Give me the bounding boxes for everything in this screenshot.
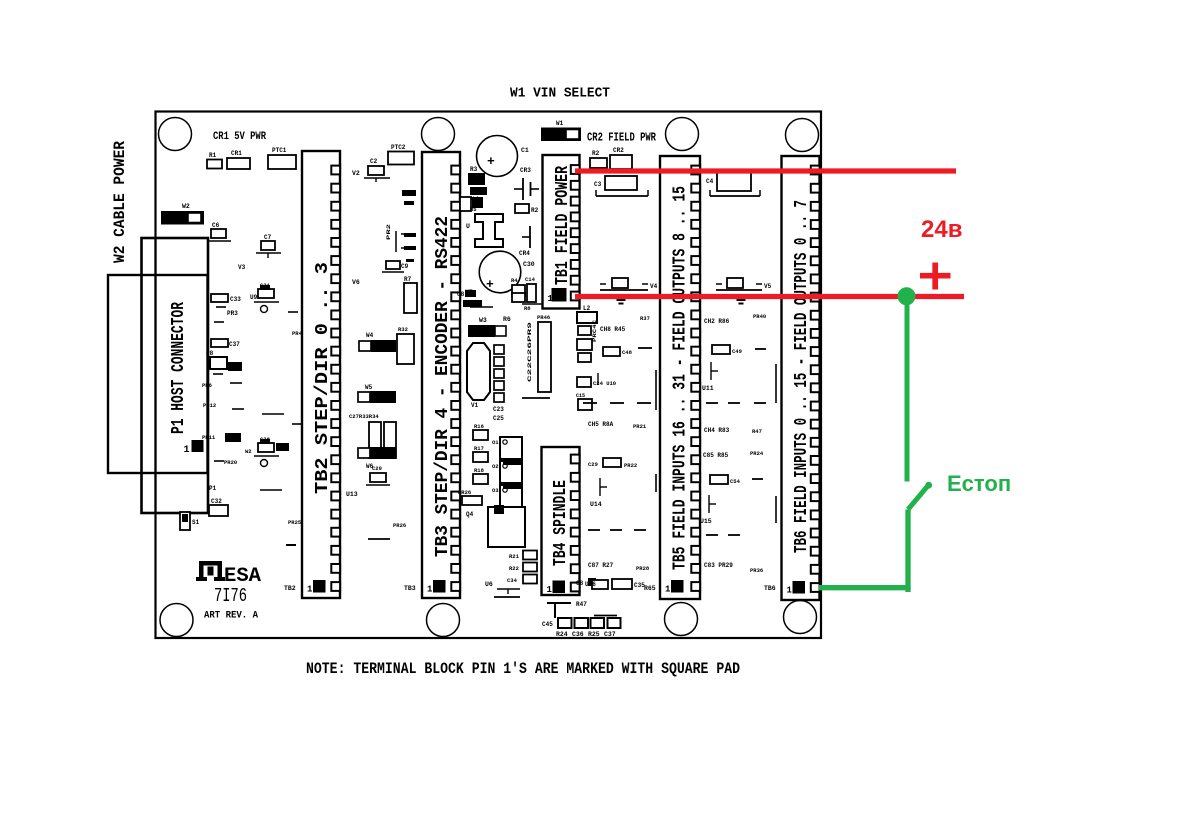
svg-text:R7: R7 bbox=[404, 276, 412, 283]
svg-text:CR2: CR2 bbox=[613, 147, 624, 154]
svg-text:C35: C35 bbox=[634, 582, 645, 589]
svg-text:O1: O1 bbox=[492, 439, 499, 446]
capacitor C4 bbox=[717, 172, 751, 191]
svg-text:CH2 R86: CH2 R86 bbox=[704, 318, 730, 325]
node junction dot bbox=[898, 288, 915, 305]
line above R25 bbox=[594, 615, 617, 617]
svg-text:PTC1: PTC1 bbox=[272, 147, 287, 154]
svg-text:U6: U6 bbox=[485, 581, 493, 588]
capacitor C33 bbox=[211, 294, 228, 302]
dash mark a bbox=[402, 190, 416, 196]
svg-text:R1: R1 bbox=[209, 152, 217, 159]
jumper W4 bbox=[371, 340, 396, 352]
dash below W6 bbox=[368, 538, 390, 540]
capacitor C2 lead bbox=[364, 177, 390, 179]
mounting hole bottom-right bbox=[784, 601, 817, 634]
resistor R24 bbox=[575, 618, 589, 628]
svg-text:C15: C15 bbox=[576, 393, 585, 399]
IC U14 lead bbox=[599, 478, 601, 496]
diode CR3 symbol bbox=[522, 178, 524, 200]
diode CR2 bbox=[610, 155, 632, 169]
PCB board outline bbox=[156, 112, 822, 639]
capacitor C34 bbox=[523, 575, 537, 584]
jumper W4 open position bbox=[359, 341, 371, 351]
svg-text:C30: C30 bbox=[523, 261, 535, 268]
trace below TB4 bbox=[547, 602, 571, 604]
svg-text:V3: V3 bbox=[238, 264, 246, 271]
transistor Q3 bbox=[500, 485, 522, 507]
svg-text:U: U bbox=[466, 223, 470, 230]
wire 24V positive bottom bbox=[575, 294, 964, 299]
transistor V5 bbox=[716, 289, 762, 291]
svg-text:U7: U7 bbox=[465, 289, 473, 296]
capacitor C4 bracket bbox=[710, 195, 760, 197]
TB1 pin 1 marker bbox=[552, 288, 567, 302]
svg-text:U11: U11 bbox=[702, 385, 714, 392]
svg-text:R47: R47 bbox=[752, 428, 762, 435]
svg-text:C37: C37 bbox=[604, 631, 616, 638]
svg-text:1: 1 bbox=[307, 585, 313, 595]
switch Estop blade bbox=[908, 485, 929, 510]
vertical trace left of TB6 a bbox=[775, 364, 777, 403]
resistor R22 bbox=[523, 563, 537, 572]
svg-text:C34: C34 bbox=[507, 577, 518, 584]
wire estop lower bbox=[905, 510, 910, 593]
svg-text:PR22: PR22 bbox=[624, 462, 637, 469]
svg-text:U15: U15 bbox=[700, 518, 712, 525]
IC U6 lead bbox=[497, 588, 520, 590]
svg-text:C29: C29 bbox=[588, 461, 598, 468]
svg-text:O3: O3 bbox=[492, 487, 499, 494]
dash right TB2 e bbox=[406, 259, 414, 262]
vertical trace left of TB5 b bbox=[655, 474, 657, 492]
svg-text:P8: P8 bbox=[206, 350, 214, 357]
svg-text:PR24: PR24 bbox=[750, 450, 764, 457]
svg-text:W1 VIN SELECT: W1 VIN SELECT bbox=[510, 86, 610, 102]
svg-text:R4: R4 bbox=[511, 277, 518, 284]
diode CR4 symbol bbox=[529, 226, 531, 248]
capacitor C49 bbox=[712, 345, 730, 354]
dash p6 bbox=[214, 460, 224, 462]
capacitor C14 bbox=[527, 284, 536, 302]
board edge through connector bbox=[154, 238, 156, 513]
svg-text:R16: R16 bbox=[474, 423, 484, 430]
resistor R25 bbox=[608, 618, 621, 628]
svg-text:1: 1 bbox=[427, 585, 433, 595]
resistor R21 bbox=[523, 551, 537, 560]
svg-text:CR2 FIELD PWR: CR2 FIELD PWR bbox=[587, 131, 657, 145]
svg-text:Q4: Q4 bbox=[466, 511, 474, 518]
capacitor C46 bbox=[578, 353, 591, 362]
resistor R1 bbox=[207, 160, 222, 169]
jumper W1 bbox=[541, 128, 581, 142]
resistor R4 bbox=[512, 285, 525, 296]
capacitor C30 bbox=[479, 251, 521, 293]
resistor R45 bbox=[577, 339, 592, 350]
svg-text:C7: C7 bbox=[264, 234, 272, 241]
capacitor C36b bbox=[228, 362, 242, 371]
terminal block TB2 STEP/DIR 0..3 bbox=[302, 151, 340, 598]
svg-text:ART REV. A: ART REV. A bbox=[204, 611, 258, 622]
crystal V1 bbox=[467, 343, 490, 400]
svg-text:R65: R65 bbox=[644, 585, 656, 592]
capacitor C8 bbox=[465, 290, 476, 297]
switch S1 bbox=[180, 512, 190, 530]
svg-text:R22: R22 bbox=[509, 565, 519, 572]
svg-text:C54: C54 bbox=[730, 478, 741, 485]
svg-text:O2: O2 bbox=[492, 463, 499, 470]
mounting hole bottom-mid-left bbox=[427, 604, 460, 637]
svg-text:S1: S1 bbox=[192, 519, 200, 526]
IC U1 body bbox=[475, 214, 503, 247]
svg-text:C48: C48 bbox=[622, 349, 633, 356]
wire estop horizontal bbox=[819, 585, 911, 590]
dash u1 bbox=[494, 596, 520, 598]
capacitor C24 bbox=[577, 377, 591, 387]
IC U11 lead bbox=[710, 362, 712, 380]
svg-text:L2: L2 bbox=[583, 305, 591, 312]
svg-text:R47: R47 bbox=[576, 601, 587, 608]
svg-text:R2: R2 bbox=[531, 207, 539, 214]
svg-text:PR26: PR26 bbox=[458, 489, 471, 496]
resistor R26 bbox=[462, 496, 482, 505]
svg-text:C24 U10: C24 U10 bbox=[593, 380, 616, 387]
svg-text:24в: 24в bbox=[921, 216, 962, 243]
svg-text:+: + bbox=[487, 154, 495, 169]
svg-text:R8: R8 bbox=[524, 305, 531, 312]
resistor R30 bbox=[225, 433, 241, 442]
resistor PR2 leads bbox=[395, 231, 397, 252]
dash p1 bbox=[216, 306, 226, 308]
svg-text:CH4 R83: CH4 R83 bbox=[704, 427, 730, 434]
vertical trace left of TB5 a bbox=[655, 370, 657, 410]
capacitor C7 bbox=[261, 241, 275, 250]
svg-text:C2: C2 bbox=[370, 158, 378, 165]
svg-text:P1 HOST CONNECTOR: P1 HOST CONNECTOR bbox=[169, 302, 189, 434]
svg-text:V5: V5 bbox=[764, 283, 772, 290]
svg-text:PR25: PR25 bbox=[288, 519, 302, 526]
plus symbol bbox=[920, 273, 951, 279]
svg-text:PR28: PR28 bbox=[636, 565, 650, 572]
svg-text:PR20: PR20 bbox=[224, 459, 237, 466]
connector P1 shell bbox=[108, 275, 208, 473]
svg-text:NOTE: TERMINAL BLOCK PIN 1'S A: NOTE: TERMINAL BLOCK PIN 1'S ARE MARKED … bbox=[306, 660, 740, 678]
capacitor C3 bbox=[605, 176, 637, 190]
resistor R17 bbox=[473, 452, 488, 462]
dash p3 bbox=[213, 373, 223, 375]
resistor pack PR46 bbox=[538, 322, 551, 392]
svg-text:CH5 R8A: CH5 R8A bbox=[588, 421, 614, 428]
mounting hole bottom-mid-right bbox=[665, 603, 698, 636]
diode CR1 bbox=[227, 158, 250, 169]
mounting hole top-mid-left bbox=[422, 118, 455, 151]
svg-text:CH8 R45: CH8 R45 bbox=[600, 326, 626, 333]
svg-text:W1: W1 bbox=[556, 120, 564, 127]
capacitor C44 bbox=[578, 326, 591, 335]
capacitor C38 lead bbox=[254, 455, 279, 457]
svg-text:PR40: PR40 bbox=[753, 313, 766, 320]
MESA logo M glyph bbox=[196, 577, 207, 581]
capacitor C2 bbox=[368, 166, 384, 175]
svg-text:C25: C25 bbox=[493, 415, 504, 422]
dash t3 bbox=[706, 534, 718, 536]
svg-text:C85 R85: C85 R85 bbox=[703, 452, 729, 459]
svg-text:R32: R32 bbox=[398, 326, 408, 333]
svg-text:U9: U9 bbox=[250, 294, 258, 301]
resistor R8a bbox=[512, 293, 525, 302]
capacitor C9 bbox=[386, 261, 400, 269]
svg-text:CR1 5V PWR: CR1 5V PWR bbox=[213, 131, 266, 143]
svg-text:R6: R6 bbox=[503, 316, 511, 323]
svg-text:U16: U16 bbox=[585, 581, 596, 588]
svg-text:C32: C32 bbox=[211, 498, 222, 505]
capacitor C21 array bbox=[494, 345, 504, 354]
svg-text:V4: V4 bbox=[650, 283, 658, 290]
fuse PTC1 bbox=[268, 155, 296, 169]
resistor R33 bbox=[369, 422, 381, 458]
svg-text:W5: W5 bbox=[365, 384, 373, 391]
vertical trace left of TB6 b bbox=[775, 496, 777, 523]
IC Q5 notch bbox=[494, 505, 504, 514]
connector P1 pin 1 marker bbox=[192, 440, 204, 452]
svg-text:TB2 STEP/DIR 0 .. 3: TB2 STEP/DIR 0 .. 3 bbox=[313, 262, 333, 494]
svg-text:C9: C9 bbox=[401, 263, 409, 270]
dash r2b bbox=[597, 373, 599, 385]
capacitor C3 bracket bbox=[596, 195, 648, 197]
dash q1 bbox=[288, 311, 298, 313]
svg-text:R17: R17 bbox=[474, 445, 484, 452]
svg-text:1: 1 bbox=[184, 445, 190, 456]
svg-text:PR2: PR2 bbox=[385, 224, 392, 240]
capacitor C54 bbox=[710, 475, 728, 484]
svg-text:PR6: PR6 bbox=[202, 382, 212, 389]
jumper W6 open position bbox=[358, 448, 370, 458]
resistor R34 bbox=[384, 422, 396, 458]
svg-text:W2: W2 bbox=[182, 203, 190, 210]
svg-text:W4: W4 bbox=[366, 332, 374, 339]
svg-text:TB3 STEP/DIR 4 - ENCODER - RS4: TB3 STEP/DIR 4 - ENCODER - RS422 bbox=[433, 216, 453, 557]
capacitor C31 lead bbox=[254, 301, 279, 303]
dash t1 bbox=[706, 402, 718, 404]
capacitor C31 bbox=[258, 289, 274, 298]
svg-text:C22C26PR9: C22C26PR9 bbox=[526, 322, 533, 382]
svg-text:P1: P1 bbox=[209, 485, 217, 492]
svg-text:1: 1 bbox=[787, 586, 793, 596]
svg-text:C23: C23 bbox=[493, 406, 504, 413]
svg-text:C4: C4 bbox=[706, 178, 714, 185]
svg-text:R18: R18 bbox=[474, 467, 485, 474]
svg-text:C8: C8 bbox=[457, 291, 465, 298]
capacitor C32 bbox=[209, 505, 228, 516]
jumper W2 bbox=[161, 211, 204, 225]
IC U7 lead bbox=[470, 306, 493, 308]
svg-text:TB3: TB3 bbox=[404, 585, 416, 592]
svg-text:+: + bbox=[486, 277, 494, 292]
capacitor C29 bbox=[603, 458, 621, 467]
jumper W5 open position bbox=[358, 392, 370, 402]
capacitor C45 bbox=[558, 618, 572, 628]
svg-text:C14: C14 bbox=[525, 276, 536, 283]
terminal block TB6 FIELD INPUTS 0..15 - FIELD OUTPUTS 0..7 bbox=[782, 156, 820, 600]
svg-text:TB1 FIELD POWER: TB1 FIELD POWER bbox=[553, 166, 573, 285]
capacitor C37 bbox=[211, 339, 228, 347]
fuse PTC2 bbox=[388, 152, 414, 165]
svg-text:PR11: PR11 bbox=[202, 434, 216, 441]
dash q3 bbox=[292, 423, 302, 425]
svg-text:C83 PR29: C83 PR29 bbox=[704, 562, 733, 569]
resistor R2 bbox=[590, 158, 607, 168]
dash p4 bbox=[230, 382, 242, 384]
capacitor C38 bbox=[258, 443, 274, 452]
svg-text:C87 R27: C87 R27 bbox=[588, 562, 614, 569]
IC 24LC01 bbox=[470, 187, 487, 195]
svg-text:C33: C33 bbox=[230, 296, 241, 303]
jumper W6 bbox=[370, 447, 396, 459]
dash p2 bbox=[214, 321, 224, 323]
dash r2 bbox=[583, 402, 597, 404]
capacitor C42 bbox=[592, 580, 608, 589]
dash mark b bbox=[404, 201, 414, 205]
capacitor C36 bbox=[591, 618, 605, 628]
dash s1 bbox=[588, 529, 600, 531]
transistor Q1 bbox=[500, 437, 522, 459]
jumper W1 open position bbox=[566, 130, 579, 140]
capacitor C8b bbox=[463, 300, 482, 307]
svg-text:TB2: TB2 bbox=[284, 585, 296, 592]
svg-text:C37: C37 bbox=[229, 341, 240, 348]
capacitor C35 bbox=[612, 579, 632, 589]
svg-text:PR36: PR36 bbox=[750, 567, 763, 574]
svg-text:7I76: 7I76 bbox=[214, 585, 247, 607]
pad circle U9 bbox=[261, 306, 268, 313]
capacitor C15 bbox=[578, 399, 592, 410]
mounting hole top-mid-right bbox=[666, 118, 699, 151]
svg-text:TB4 SPINDLE: TB4 SPINDLE bbox=[551, 480, 571, 566]
svg-text:R5: R5 bbox=[470, 206, 477, 213]
resistor R41 bbox=[276, 443, 289, 451]
terminal block TB1 FIELD POWER bbox=[543, 155, 580, 309]
svg-text:TB6 FIELD INPUTS 0 .. 15 - FIE: TB6 FIELD INPUTS 0 .. 15 - FIELD OUTPUTS… bbox=[792, 200, 812, 553]
test pads under V4 bbox=[617, 299, 626, 302]
inductor L2 bbox=[577, 312, 597, 323]
resistor R16 bbox=[473, 430, 488, 440]
pad circle C38 bbox=[261, 460, 268, 467]
jumper W2 open position bbox=[188, 213, 201, 223]
terminal block TB3 STEP/DIR 4 - ENCODER - RS422 bbox=[422, 152, 460, 598]
capacitor C1 bbox=[477, 136, 518, 177]
svg-text:R25: R25 bbox=[588, 631, 600, 638]
svg-text:PR46: PR46 bbox=[537, 314, 550, 321]
svg-text:V1: V1 bbox=[471, 402, 479, 409]
svg-text:W3: W3 bbox=[479, 317, 487, 324]
svg-text:PR26: PR26 bbox=[393, 522, 406, 529]
terminal block TB4 SPINDLE bbox=[542, 447, 580, 595]
svg-text:C45: C45 bbox=[542, 621, 553, 628]
capacitor C6 bbox=[460, 197, 471, 211]
svg-text:R21: R21 bbox=[509, 553, 520, 560]
capacitor C20 lead bbox=[366, 484, 390, 486]
svg-text:R3: R3 bbox=[470, 166, 478, 173]
svg-text:U14: U14 bbox=[590, 501, 602, 508]
resistor R3 bbox=[468, 173, 485, 185]
dash r1 bbox=[638, 347, 652, 349]
dash q4 bbox=[260, 489, 282, 491]
capacitor C6 bbox=[211, 229, 226, 238]
jumper W3 bbox=[468, 325, 495, 337]
svg-text:W2: W2 bbox=[245, 448, 252, 455]
svg-text:V6: V6 bbox=[352, 279, 360, 286]
IC Q5 body bbox=[488, 507, 525, 547]
svg-text:TB5 FIELD INPUTS 16 .. 31 - FI: TB5 FIELD INPUTS 16 .. 31 - FIELD OUTPUT… bbox=[671, 186, 691, 570]
resistor R2a bbox=[515, 204, 529, 213]
svg-text:PTC2: PTC2 bbox=[391, 144, 406, 151]
terminal block TB5 FIELD INPUTS 16..31 - FIELD OUTPUTS 8..15 bbox=[660, 156, 700, 599]
bracket lead bbox=[522, 303, 542, 305]
svg-text:C49: C49 bbox=[732, 348, 742, 355]
svg-text:CR1: CR1 bbox=[231, 150, 242, 157]
svg-text:C27R33R34: C27R33R34 bbox=[349, 413, 379, 420]
svg-text:1: 1 bbox=[547, 585, 553, 595]
capacitor C20 bbox=[370, 473, 386, 482]
svg-text:V2: V2 bbox=[352, 170, 360, 177]
svg-text:R37: R37 bbox=[640, 315, 650, 322]
svg-text:U13: U13 bbox=[346, 491, 358, 498]
svg-text:C3: C3 bbox=[594, 181, 602, 188]
capacitor C48 bbox=[603, 347, 620, 356]
mounting hole top-right bbox=[786, 119, 819, 152]
svg-text:PR12: PR12 bbox=[203, 402, 216, 409]
IC U15 lead bbox=[708, 495, 710, 513]
svg-text:1: 1 bbox=[665, 585, 671, 595]
capacitor C9 lead bbox=[382, 271, 404, 273]
connector P1 body bbox=[142, 238, 209, 513]
lead under PR46 bbox=[522, 397, 550, 399]
svg-text:C1: C1 bbox=[521, 147, 529, 154]
svg-text:PRC4C: PRC4C bbox=[592, 320, 598, 342]
dash q2 bbox=[262, 413, 284, 415]
resistor P8 bbox=[210, 357, 227, 369]
svg-text:PR21: PR21 bbox=[633, 423, 647, 430]
svg-text:TB6: TB6 bbox=[764, 585, 776, 592]
resistor R32 bbox=[397, 334, 414, 364]
svg-text:PR4: PR4 bbox=[292, 330, 303, 337]
test pads under V5 bbox=[737, 299, 746, 302]
dash right TB2 d bbox=[404, 246, 416, 250]
transistor V4 bbox=[600, 289, 648, 291]
svg-text:C8: C8 bbox=[576, 580, 584, 587]
jumper W5 bbox=[370, 391, 396, 403]
dash q5 bbox=[286, 544, 296, 546]
mounting hole top-left bbox=[159, 118, 192, 151]
svg-text:PR3: PR3 bbox=[227, 310, 238, 317]
dash t2 bbox=[752, 478, 763, 480]
svg-text:CR3: CR3 bbox=[520, 167, 531, 174]
mounting hole bottom-left bbox=[160, 604, 193, 637]
svg-text:R24: R24 bbox=[556, 631, 568, 638]
dash p5 bbox=[232, 408, 244, 410]
svg-text:W2 CABLE POWER: W2 CABLE POWER bbox=[111, 141, 129, 263]
dash right TB2 c bbox=[404, 233, 416, 237]
dash t0 bbox=[755, 348, 766, 350]
jumper W3 open position bbox=[495, 326, 506, 336]
svg-text:C36: C36 bbox=[572, 631, 584, 638]
wire 24V positive top bbox=[575, 168, 956, 173]
svg-text:Естоп: Естоп bbox=[947, 471, 1011, 496]
resistor R18 bbox=[473, 474, 488, 484]
resistor R7 bbox=[404, 283, 417, 313]
svg-text:C6: C6 bbox=[212, 222, 220, 229]
transistor Q2 bbox=[500, 461, 522, 483]
